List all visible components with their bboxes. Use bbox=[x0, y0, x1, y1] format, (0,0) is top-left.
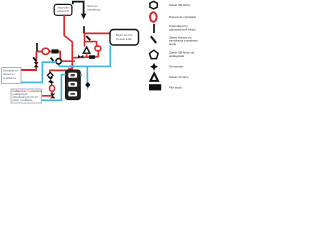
air vent valve left (black line on pipe) bbox=[36, 43, 38, 51]
wire: sewer arrow elbow bbox=[73, 2, 84, 15]
pipe: cyan long line under to Kospel riser bbox=[59, 45, 110, 66]
pipe: red H2 top to Kospel box bbox=[84, 32, 110, 34]
svg-text:wzbiorcze: wzbiorcze bbox=[57, 9, 69, 13]
pipe: red from ring to right stub bbox=[62, 60, 75, 62]
svg-text:wody: wody bbox=[169, 42, 177, 46]
legend filter symbol bbox=[149, 84, 161, 90]
bowtie valve lower on column bbox=[49, 82, 54, 87]
pipe: red right segment y=70.4 with corner down bbox=[50, 70, 72, 73]
pipe: red H3 from tank vertical to pump-R bbox=[72, 57, 98, 58]
bowtie valve on left drop bbox=[34, 62, 39, 67]
svg-text:parter i poddasze: parter i poddasze bbox=[12, 98, 33, 102]
pump P1 (left circulation pump) bbox=[42, 48, 49, 54]
valve ring (hexagon valve) node bbox=[56, 59, 61, 64]
bowtie valve on H3 bbox=[78, 55, 83, 59]
floor-heating valve diamond (white) bbox=[47, 73, 53, 79]
DHW tank box Kospel bbox=[110, 30, 139, 46]
legend check valve symbol bbox=[150, 73, 158, 81]
legend pentagon valve symbol bbox=[150, 50, 159, 58]
heat source boiler bbox=[66, 70, 81, 100]
svg-text:kanalizacji: kanalizacji bbox=[88, 7, 101, 11]
air vent cap left bbox=[36, 43, 38, 45]
water filter F1 on H1-left bbox=[52, 49, 59, 53]
arrowhead to sewer bbox=[81, 14, 86, 19]
pipe: red hook into boiler top bbox=[69, 69, 72, 71]
ball valve tick on cyan feed bbox=[51, 58, 54, 61]
pipe: red corner down to ring bbox=[59, 52, 61, 60]
ball valve tick left bbox=[33, 57, 36, 61]
legend hexagon valve bbox=[150, 1, 157, 9]
pipe: red H1-left horizontal y=51.5 bbox=[36, 51, 59, 53]
pipe: red from tank down, diagonal, to boiler bbox=[64, 15, 72, 71]
valve ring tail bbox=[58, 64, 60, 66]
svg-text:Pompa do cyrkulacji: Pompa do cyrkulacji bbox=[169, 15, 196, 19]
bowtie valve upper on column bbox=[48, 77, 53, 82]
check valve triangle bbox=[83, 47, 90, 53]
pipe: red pump-R down to H3 bbox=[97, 51, 99, 58]
pipe: cyan from box1 right, riser up, to ring bbox=[21, 62, 56, 82]
svg-text:Termometr: Termometr bbox=[169, 65, 183, 69]
svg-text:Zawór 3D Africo: Zawór 3D Africo bbox=[169, 3, 191, 7]
pipe: red vent drop to check valve bbox=[84, 33, 86, 46]
pipe: cyan tail below thermometer bbox=[87, 86, 89, 90]
pipe: cyan drop to thermometer bbox=[86, 66, 88, 83]
pump P2 (DHW pump) bbox=[95, 46, 101, 51]
legend thermometer symbol bbox=[150, 63, 158, 71]
svg-text:w łazience: w łazience bbox=[3, 76, 17, 80]
water filter F2 on H3 bbox=[89, 55, 95, 59]
pipe: red from triangle to filter bbox=[86, 53, 88, 57]
pipe: cyan boiler left loop to box2 bbox=[42, 75, 66, 101]
thermometer diamond on cyan drop bbox=[85, 82, 90, 88]
legend air vent symbol bbox=[153, 25, 155, 33]
air vent cap right bbox=[83, 26, 85, 28]
svg-text:podłogówki: podłogówki bbox=[169, 54, 184, 58]
svg-text:odpowietrznik Africo: odpowietrznik Africo bbox=[169, 28, 196, 32]
pump P3 (floor heating pump) bbox=[50, 86, 55, 92]
pipe: cyan boiler right nub bbox=[80, 74, 82, 76]
ball valve tick right bbox=[86, 36, 90, 40]
svg-text:Kospel 140L: Kospel 140L bbox=[116, 37, 132, 41]
info box2 floor heating bbox=[11, 89, 42, 103]
legend pump symbol bbox=[150, 12, 157, 21]
pipe: red box1 feed y=70 bbox=[21, 69, 36, 71]
svg-text:Filtr wody: Filtr wody bbox=[169, 85, 182, 89]
pipe: cyan ring bottom tail bbox=[58, 65, 60, 67]
bowtie valve at box2 corner bbox=[50, 94, 55, 99]
info box1 radiators bbox=[2, 68, 21, 84]
legend ball valve symbol bbox=[151, 36, 156, 43]
pipe: red left drop from H1 to box1 line bbox=[21, 52, 36, 70]
air vent valve right (black line on pipe) bbox=[83, 27, 85, 34]
pipe: red branch to pump-R bbox=[85, 42, 97, 46]
svg-text:Zawór zwrotny: Zawór zwrotny bbox=[169, 75, 189, 79]
svg-text:Naczynie: Naczynie bbox=[57, 6, 69, 10]
expansion tank box bbox=[54, 4, 72, 15]
pipe: red from pump down to box2 line bbox=[42, 91, 52, 96]
